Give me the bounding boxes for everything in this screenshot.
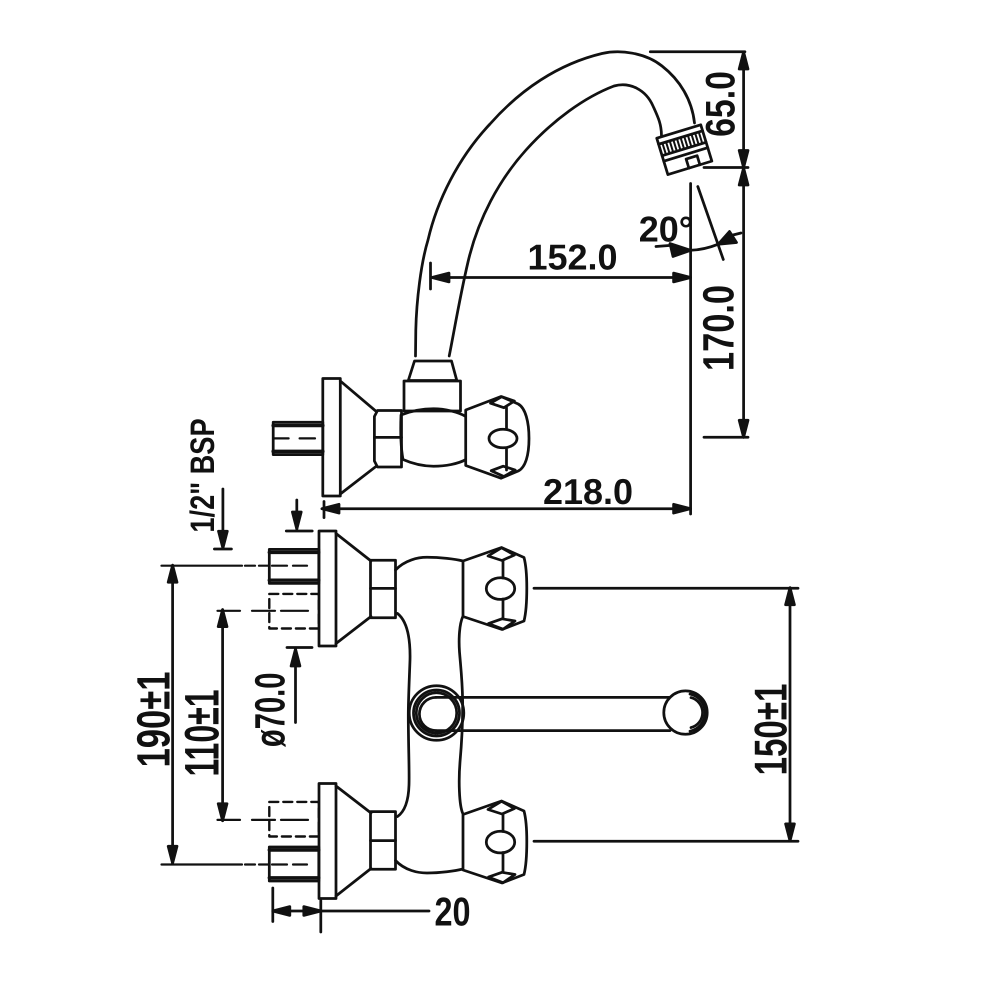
bottom hidden centerline + 110 extension (218, 819, 309, 821)
bottom hidden nipple (dashed) (269, 802, 319, 837)
ball joint rings (409, 686, 464, 741)
top handle (front) (463, 548, 527, 630)
hex nut mid line (374, 436, 401, 439)
dim extension mid (704, 166, 748, 169)
nipple centerline (side) (274, 437, 315, 439)
dim 190 line (171, 565, 174, 863)
flange cone bottom edge (340, 467, 375, 494)
spout base ring (404, 381, 461, 411)
svg-text:ø70.0: ø70.0 (246, 673, 294, 748)
bottom handle (front) (463, 801, 527, 883)
dim extension 170 bottom (704, 436, 748, 439)
top nipple (front) (269, 549, 319, 583)
hex nut (side) (374, 411, 401, 468)
spout tube (front) (436, 696, 670, 699)
spout end cap (664, 691, 707, 734)
svg-text:190±1: 190±1 (127, 672, 180, 768)
faucet body (side) (401, 409, 467, 466)
dim 218.0 line (322, 507, 691, 510)
wall nipple (side) (273, 422, 323, 454)
wall flange plate (side) (323, 379, 341, 497)
top hidden centerline + 110 extension (218, 610, 309, 612)
BSP leader arrow (222, 489, 225, 548)
top hex nut (front) (371, 560, 396, 618)
body neck right (459, 617, 463, 814)
bottom hex nut (front) (371, 812, 396, 870)
svg-text:150±1: 150±1 (744, 684, 796, 776)
top nipple centerline + 190 extension (162, 565, 308, 567)
dim 152.0 arrows (432, 273, 449, 282)
svg-text:20°: 20° (639, 209, 693, 250)
bottom nipple (front) (269, 847, 319, 881)
top hidden nipple (dashed) (269, 594, 319, 629)
dim 152.0 tick (429, 263, 432, 289)
angle arc arrow left (670, 244, 691, 257)
dim 218.0 arrows (322, 504, 339, 513)
dim dia70 leader (287, 646, 312, 649)
dim 110 line (221, 610, 224, 821)
svg-text:218.0: 218.0 (543, 471, 633, 512)
bottom cone edges (336, 869, 371, 897)
spout collar (408, 361, 457, 381)
dim 65.0 arrows (739, 52, 748, 69)
body neck left (398, 614, 411, 817)
dim 170.0 line (742, 168, 745, 437)
dim 218.0 tick (323, 502, 326, 518)
aerator (657, 125, 712, 175)
svg-text:170.0: 170.0 (693, 285, 743, 371)
top flange plate (front) (319, 531, 336, 646)
dim 150 extensions (534, 587, 798, 590)
dim 150 line (789, 588, 792, 841)
svg-text:20: 20 (434, 889, 470, 935)
spout inner curve (449, 85, 661, 356)
dim extension top (650, 50, 745, 53)
dim 20 line (273, 910, 321, 913)
top cone edges (336, 534, 371, 562)
svg-text:65.0: 65.0 (697, 71, 744, 137)
body top shoulder (396, 557, 464, 570)
dim 20 extensions (271, 888, 274, 922)
body bottom shoulder (396, 861, 464, 874)
svg-text:1/2" BSP: 1/2" BSP (184, 418, 222, 532)
dim 170.0 arrows (739, 168, 748, 185)
handle (side) (466, 397, 529, 479)
20 deg tilted line (698, 187, 724, 260)
dim 65.0 line (742, 52, 745, 168)
wall line arrow (295, 500, 298, 529)
angle arc tail right (733, 233, 741, 235)
dim 152.0 line (432, 276, 691, 279)
bottom flange plate (front) (319, 784, 336, 899)
vertical reference line (689, 184, 692, 515)
angle arc arrow right (718, 232, 736, 245)
bottom nipple centerline + 190 extension (162, 863, 308, 865)
svg-text:152.0: 152.0 (527, 237, 617, 278)
angle arc tail left (656, 246, 669, 247)
angle arc (691, 244, 719, 250)
flange cone top edge (340, 381, 375, 411)
spout outer curve (416, 52, 695, 356)
svg-text:110±1: 110±1 (174, 689, 229, 776)
